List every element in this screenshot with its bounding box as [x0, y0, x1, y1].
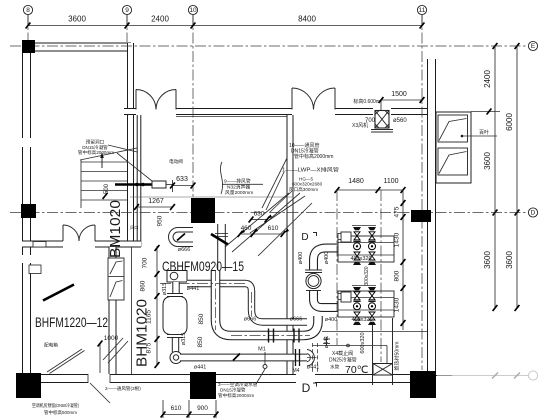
svg-text:ø441: ø441	[187, 286, 200, 292]
svg-text:500: 500	[104, 183, 110, 194]
svg-text:11: 11	[419, 7, 426, 14]
svg-text:3600: 3600	[483, 152, 492, 170]
svg-text:1480: 1480	[348, 178, 364, 185]
svg-text:1000: 1000	[104, 335, 119, 342]
svg-text:400x320: 400x320	[351, 317, 372, 323]
svg-text:9——排风管: 9——排风管	[224, 178, 251, 185]
svg-text:X4截止阀: X4截止阀	[332, 350, 353, 357]
svg-text:1500: 1500	[391, 91, 407, 98]
svg-text:ø441: ø441	[307, 365, 320, 371]
svg-text:BM1020: BM1020	[107, 200, 124, 258]
svg-text:860: 860	[140, 280, 147, 291]
svg-text:3600: 3600	[483, 251, 492, 269]
svg-text:X3风机: X3风机	[352, 122, 368, 129]
svg-text:百叶: 百叶	[479, 129, 489, 136]
svg-text:300x320: 300x320	[364, 266, 370, 285]
svg-text:610: 610	[171, 405, 182, 412]
svg-text:8400: 8400	[298, 15, 316, 24]
svg-text:900: 900	[197, 405, 208, 412]
svg-text:D: D	[302, 381, 311, 395]
svg-text:630: 630	[254, 211, 265, 218]
svg-text:管中标高2000mm: 管中标高2000mm	[218, 392, 254, 399]
svg-text:ø315: ø315	[181, 333, 187, 346]
svg-text:3600: 3600	[68, 15, 86, 24]
svg-text:风口高300mm: 风口高300mm	[289, 186, 318, 193]
svg-text:M1: M1	[258, 347, 266, 353]
svg-text:800: 800	[394, 270, 401, 281]
svg-text:950: 950	[157, 215, 164, 226]
svg-text:D: D	[301, 232, 308, 243]
svg-text:1100: 1100	[383, 178, 398, 185]
svg-text:E: E	[531, 43, 536, 50]
svg-text:N32消声器: N32消声器	[227, 183, 250, 190]
svg-text:400x320: 400x320	[350, 256, 371, 262]
svg-text:ø666: ø666	[178, 247, 191, 253]
svg-text:ø400: ø400	[324, 252, 330, 265]
svg-text:ø400: ø400	[325, 317, 338, 323]
svg-text:管中标高2000mm: 管中标高2000mm	[294, 153, 333, 160]
svg-text:6000: 6000	[505, 113, 514, 131]
svg-text:1430: 1430	[394, 297, 401, 312]
svg-text:850: 850	[198, 313, 205, 324]
svg-text:ø441: ø441	[194, 365, 207, 371]
svg-text:850: 850	[197, 336, 204, 347]
svg-text:配电箱: 配电箱	[44, 342, 58, 349]
svg-text:10: 10	[189, 7, 197, 14]
svg-text:电动阀: 电动阀	[169, 158, 183, 165]
svg-text:绝热衬50mm: 绝热衬50mm	[394, 342, 401, 371]
svg-text:ø400: ø400	[298, 252, 304, 265]
svg-text:610: 610	[268, 225, 279, 232]
svg-text:M4: M4	[293, 368, 300, 374]
svg-text:ø666: ø666	[290, 317, 303, 323]
svg-text:875: 875	[146, 342, 153, 353]
svg-text:管中标高500mm: 管中标高500mm	[44, 409, 77, 416]
svg-text:3600: 3600	[505, 251, 514, 269]
svg-text:DN25冷凝管: DN25冷凝管	[329, 357, 357, 364]
svg-text:ø666: ø666	[244, 317, 257, 323]
svg-text:475: 475	[394, 206, 401, 217]
svg-text:2——通风管(3根): 2——通风管(3根)	[105, 385, 141, 392]
svg-text:ø560: ø560	[393, 118, 407, 124]
svg-text:管中标高2000mm: 管中标高2000mm	[78, 149, 114, 156]
svg-text:D: D	[531, 210, 536, 217]
svg-text:BHM1020: BHM1020	[134, 299, 151, 367]
svg-text:700: 700	[142, 257, 149, 268]
svg-text:633: 633	[176, 176, 188, 183]
svg-text:ø315: ø315	[162, 283, 168, 296]
svg-text:8: 8	[26, 7, 30, 14]
svg-text:水管: 水管	[330, 364, 340, 371]
svg-text:风量2000mm: 风量2000mm	[225, 189, 253, 196]
svg-text:460: 460	[241, 225, 252, 232]
svg-text:1165: 1165	[146, 310, 153, 324]
svg-text:空调机房预留(DN50冷凝管): 空调机房预留(DN50冷凝管)	[32, 402, 79, 409]
svg-text:600x320: 600x320	[360, 332, 366, 353]
svg-text:1430: 1430	[394, 232, 401, 247]
svg-text:ø441: ø441	[324, 336, 330, 349]
svg-text:BHFM1220—12: BHFM1220—12	[35, 315, 108, 330]
svg-text:600x320x2680: 600x320x2680	[292, 182, 323, 187]
svg-text:2400: 2400	[483, 70, 492, 88]
svg-text:9: 9	[125, 7, 129, 14]
svg-text:标高0.600m: 标高0.600m	[353, 98, 380, 105]
svg-text:1267: 1267	[148, 198, 164, 205]
svg-text:1——LWP—X排风管: 1——LWP—X排风管	[282, 167, 339, 174]
svg-text:2400: 2400	[151, 15, 169, 24]
svg-text:70℃: 70℃	[345, 364, 369, 376]
svg-text:CBHFM0920—15: CBHFM0920—15	[162, 258, 244, 274]
